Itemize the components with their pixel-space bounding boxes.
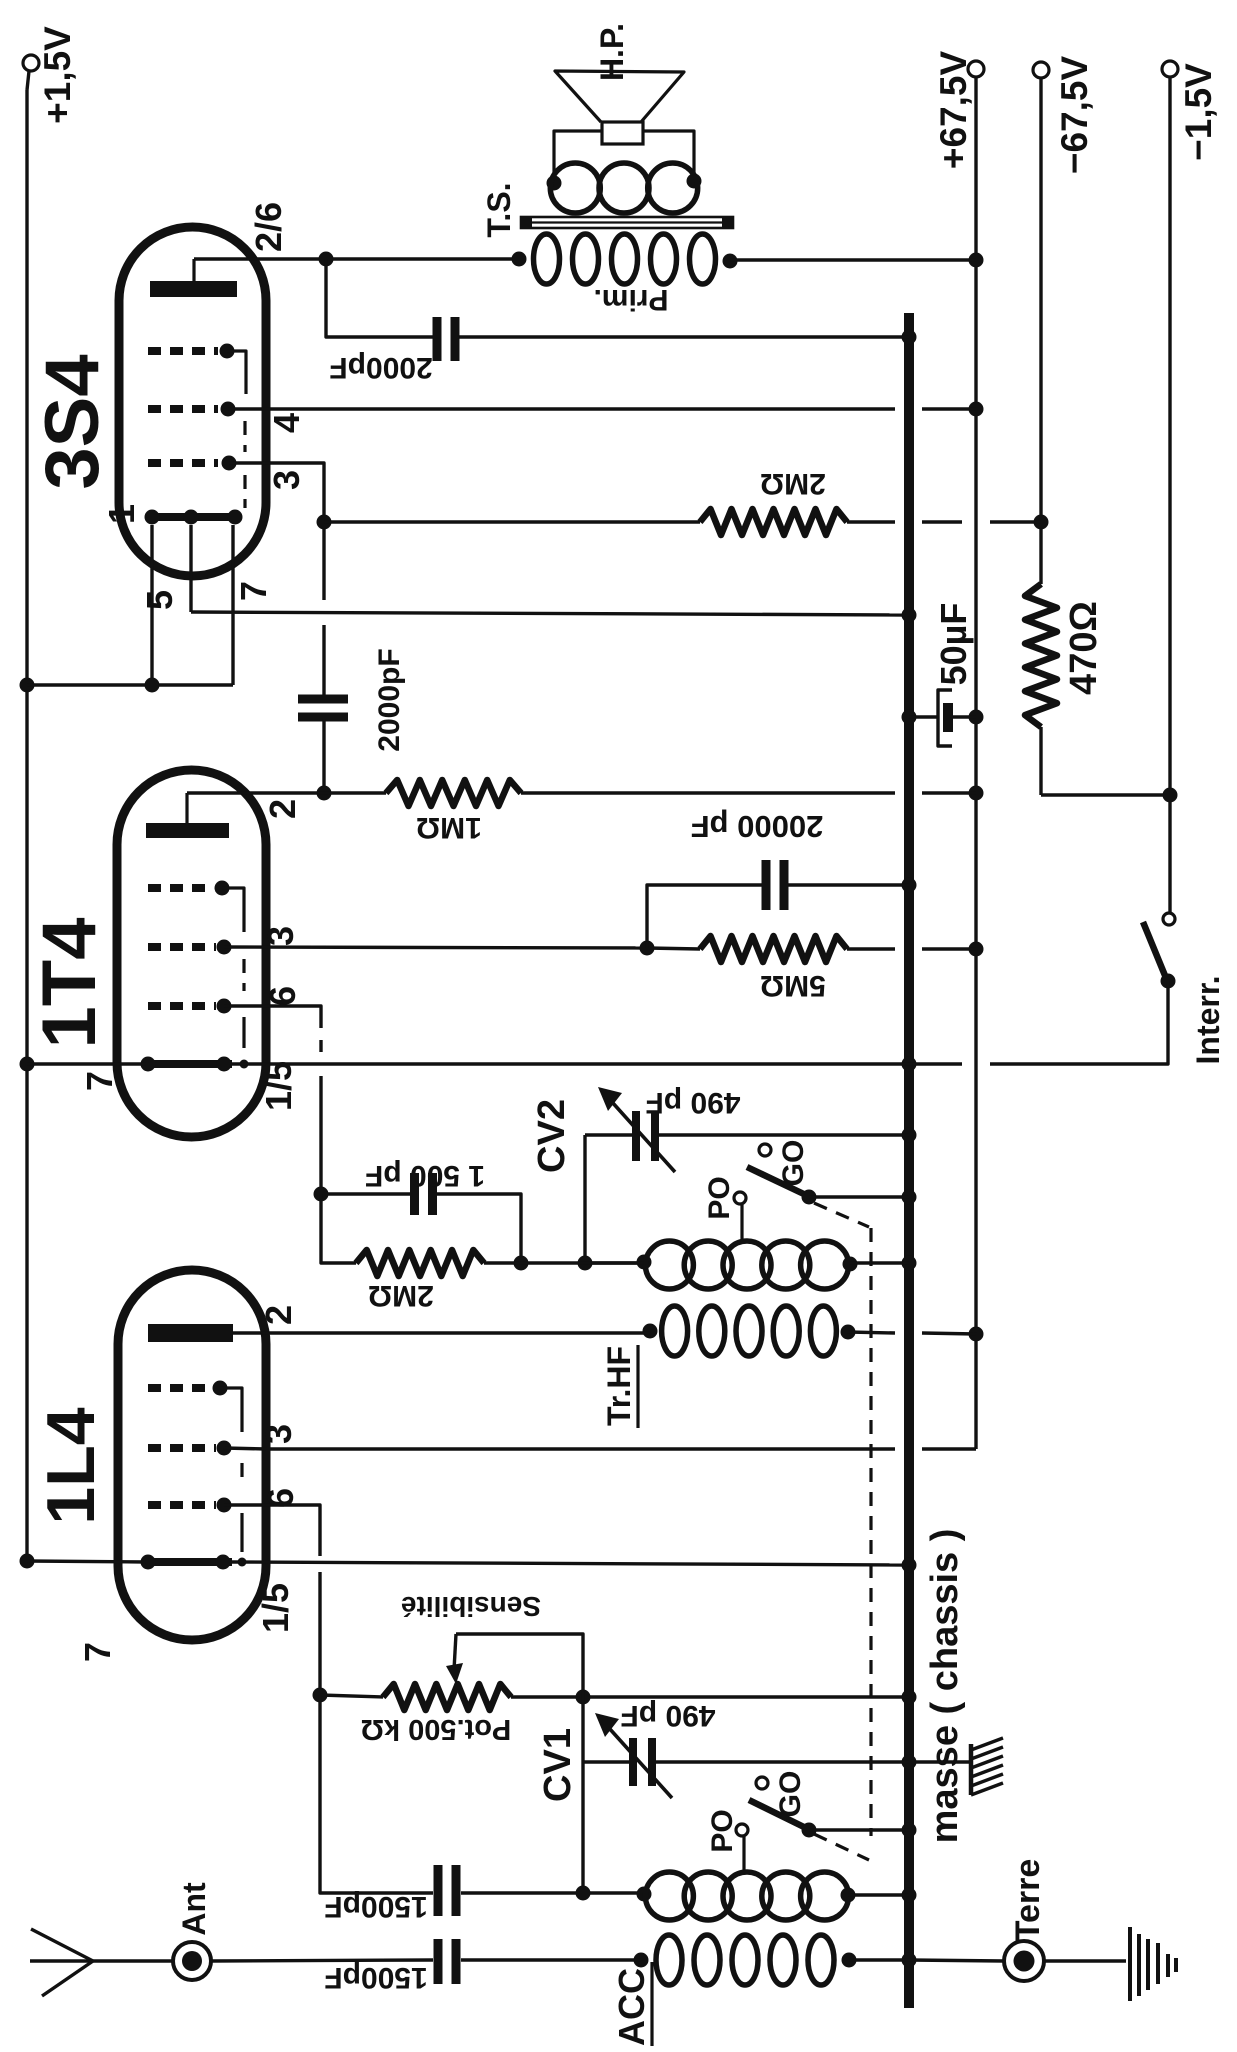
junction dot -67,5V / 2MOhm xyxy=(1034,515,1049,530)
svg-text:1 500 pF: 1 500 pF xyxy=(365,1159,485,1192)
label 5MOhm xyxy=(760,969,826,1002)
svg-text:6: 6 xyxy=(260,1488,301,1508)
terminal Ant xyxy=(173,1942,211,1980)
transformer Tr.HF primary coil xyxy=(643,1306,977,1356)
label Interr. xyxy=(1190,976,1226,1065)
svg-text:−1,5V: −1,5V xyxy=(1178,63,1219,161)
svg-text:1: 1 xyxy=(101,504,142,524)
label 2000pF bypass xyxy=(329,351,432,384)
tube 3S4 envelope xyxy=(119,227,266,576)
label 2MOhm (1T4 grid) xyxy=(368,1279,434,1312)
junction dot +1,5V rail / 1T4 filament xyxy=(20,1057,35,1072)
interrupter switch Interr. xyxy=(1143,913,1176,989)
svg-text:Tr.HF: Tr.HF xyxy=(601,1346,637,1426)
bus junction dot CV1 xyxy=(902,1755,917,1770)
svg-text:1500pF: 1500pF xyxy=(324,1890,427,1923)
1T4 grid 3 (dashed) pin 6 xyxy=(148,999,232,1014)
wire -67,5V rail xyxy=(1041,78,1170,795)
label 3 (1L4) xyxy=(258,1424,299,1444)
wiper bracket wire xyxy=(456,1634,583,1697)
label GO (Tr.HF) xyxy=(777,1140,810,1187)
svg-text:3: 3 xyxy=(258,1424,299,1444)
dashed gang linkage xyxy=(814,1203,871,1860)
terminal +1,5V xyxy=(23,26,78,124)
svg-text:Terre: Terre xyxy=(1009,1859,1047,1942)
1T4 filament wire to bus xyxy=(27,1062,962,1065)
3S4 suppressor link dashes xyxy=(243,475,246,508)
tube 1T4 envelope xyxy=(117,770,266,1137)
1T4 filament bar xyxy=(141,1057,249,1072)
svg-text:+67,5V: +67,5V xyxy=(933,51,974,170)
antenna symbol xyxy=(30,1929,173,1996)
capacitor 1500pF (antenna) xyxy=(211,1939,641,1984)
3S4 pin 7 wire xyxy=(231,525,234,685)
bus junction dot Tr.HF secondary xyxy=(902,1256,917,1271)
wire -1,5V rail xyxy=(1168,77,1171,913)
3S4 pins 1-7 wire xyxy=(27,683,233,686)
label 4 xyxy=(266,413,307,433)
label CV2 xyxy=(531,1099,573,1173)
bus junction dot 20000pF xyxy=(902,878,917,893)
wire bus to chassis symbol xyxy=(909,1760,971,1763)
1L4 grid 3 (dashed) pin 6 xyxy=(148,1498,232,1513)
junction dot 3S4 anode / 2000pF xyxy=(319,252,334,267)
label 2/6 xyxy=(248,202,289,252)
bus junction dot GO switch 1 xyxy=(902,1190,917,1205)
wire +67,5V rail xyxy=(266,77,976,1449)
svg-text:GO: GO xyxy=(777,1140,810,1187)
capacitor 20000pF xyxy=(647,860,909,948)
label 1 xyxy=(101,504,142,524)
svg-text:Prim.: Prim. xyxy=(593,283,668,316)
transformer Tr.HF secondary coil xyxy=(585,1241,909,1289)
svg-text:2000pF: 2000pF xyxy=(329,351,432,384)
label 1/5 (1L4) xyxy=(255,1583,296,1633)
3S4 grid 2 (dashed) pin 4 xyxy=(148,402,236,417)
3S4 pin 1 wire xyxy=(150,525,153,685)
svg-text:PO: PO xyxy=(706,1809,739,1852)
3S4 filament bar xyxy=(145,510,243,525)
3S4 screen wire pin 4 to +67,5V xyxy=(228,407,976,410)
junction dot +1,5V rail / 3S4 filament xyxy=(20,678,35,693)
wave switch PO/GO (Tr.HF) xyxy=(734,1144,817,1240)
capacitor 2000pF (coupling) xyxy=(298,695,348,794)
svg-text:470Ω: 470Ω xyxy=(1063,601,1105,695)
earth ground symbol xyxy=(1044,1927,1176,2001)
resistor 2MOhm (3S4 grid leak) xyxy=(324,509,1041,535)
capacitor 1500pF (1T4 grid) xyxy=(321,1173,521,1263)
label Sensibilite xyxy=(401,1591,541,1622)
1T4 grid link dashes xyxy=(242,959,245,991)
terminal +67,5V xyxy=(933,51,984,170)
junction dot +67,5V / T.S. primary xyxy=(969,253,984,268)
svg-text:masse ( chassis ): masse ( chassis ) xyxy=(924,1529,966,1844)
svg-text:CV1: CV1 xyxy=(537,1728,579,1802)
bus junction dot CV2 xyxy=(902,1128,917,1143)
variable capacitor CV2 490pF xyxy=(585,1087,909,1172)
svg-text:3: 3 xyxy=(266,470,307,490)
wire +1,5V filament rail xyxy=(25,90,28,1561)
svg-text:2: 2 xyxy=(258,1305,299,1325)
label 3 xyxy=(266,470,307,490)
label 1T4 xyxy=(27,918,112,1049)
svg-text:3S4: 3S4 xyxy=(30,354,115,489)
svg-text:3: 3 xyxy=(260,926,301,946)
junction dot pin1 xyxy=(145,678,160,693)
svg-text:490 pF: 490 pF xyxy=(620,1699,715,1732)
svg-text:5MΩ: 5MΩ xyxy=(760,969,826,1002)
bus junction dot 3S4 pin5/7 xyxy=(902,608,917,623)
label H.P. xyxy=(594,23,630,81)
1T4 anode wire pin 2 xyxy=(187,791,326,794)
junction dot CV2 / grid node xyxy=(578,1256,593,1271)
1T4 grid wire pin 3 / 5MOhm xyxy=(224,947,647,948)
label 1/5 (1T4) xyxy=(258,1061,299,1111)
wire pot node down to CV1 xyxy=(581,1697,584,1893)
svg-text:2000pF: 2000pF xyxy=(373,648,406,751)
label 7 (1L4) xyxy=(77,1642,118,1662)
svg-text:6: 6 xyxy=(262,986,303,1006)
label PO (Tr.HF) xyxy=(703,1176,736,1219)
svg-text:1L4: 1L4 xyxy=(33,1407,109,1524)
label 6 (1L4) xyxy=(260,1488,301,1508)
label Prim. xyxy=(593,283,668,316)
label Pot.500 kOhm xyxy=(361,1713,512,1745)
3S4 anode plate xyxy=(150,259,237,297)
1L4 suppressor link xyxy=(240,1513,243,1552)
svg-text:1/5: 1/5 xyxy=(258,1061,299,1111)
junction dot +67,5V / 1MOhm xyxy=(969,786,984,801)
1T4 grid 1 (dashed) xyxy=(148,881,244,933)
label 490pF (CV1) xyxy=(620,1699,715,1732)
1L4 anode plate pin 2 xyxy=(148,1324,650,1342)
label 1500pF (antenna) xyxy=(324,1961,427,1994)
wave switch PO/GO (ACC) xyxy=(736,1777,817,1872)
speaker voice coil xyxy=(547,131,702,213)
label 2MOhm grid leak xyxy=(760,467,826,500)
label 2 (1L4) xyxy=(258,1305,299,1325)
1T4 anode plate xyxy=(146,793,229,838)
label 1500pF (grid coil) xyxy=(324,1890,427,1923)
bus junction dot antenna coil xyxy=(902,1953,917,1968)
wire Interr. to bus xyxy=(990,981,1168,1064)
resistor 5MOhm xyxy=(647,936,976,962)
1L4 grid link dashes xyxy=(240,1463,243,1478)
label 1MOhm xyxy=(416,811,482,844)
label 20000pF xyxy=(691,809,824,844)
svg-text:1500pF: 1500pF xyxy=(324,1961,427,1994)
label 5 xyxy=(139,590,180,610)
svg-text:1T4: 1T4 xyxy=(27,918,112,1049)
svg-text:50µF: 50µF xyxy=(933,603,974,686)
label GO (ACC) xyxy=(774,1771,807,1818)
label 50uF xyxy=(933,603,974,686)
3S4 pin 5 wire xyxy=(191,525,909,615)
3S4 anode wire pin 2/6 xyxy=(194,257,519,260)
1T4 suppressor link xyxy=(242,1017,245,1048)
svg-text:GO: GO xyxy=(774,1771,807,1818)
pot wiper arrow xyxy=(446,1634,463,1684)
1L4 screen wire pin 3 xyxy=(224,1448,266,1449)
svg-text:PO: PO xyxy=(703,1176,736,1219)
svg-text:CV2: CV2 xyxy=(531,1099,573,1173)
svg-text:5: 5 xyxy=(139,590,180,610)
svg-text:Sensibilité: Sensibilité xyxy=(401,1591,541,1622)
junction dot +67,5V / 3S4 screen xyxy=(969,402,984,417)
svg-text:7: 7 xyxy=(233,581,274,601)
bus junction dot GO switch 2 xyxy=(902,1823,917,1838)
junction dot +1,5V rail / 1L4 filament xyxy=(20,1554,35,1569)
svg-text:490 pF: 490 pF xyxy=(645,1086,740,1119)
svg-text:2/6: 2/6 xyxy=(248,202,289,252)
svg-text:4: 4 xyxy=(266,413,307,433)
svg-text:Interr.: Interr. xyxy=(1190,976,1226,1065)
1T4 pin 6 wire xyxy=(224,1006,321,1194)
tube 1L4 envelope xyxy=(118,1270,266,1640)
wire GO switch 1 to bus xyxy=(809,1195,909,1198)
wire CV2 to grid node xyxy=(583,1135,586,1263)
transformer T.S. core xyxy=(521,216,733,229)
label 7 xyxy=(233,581,274,601)
junction dot +67,5V / 5MOhm xyxy=(969,942,984,957)
svg-text:2MΩ: 2MΩ xyxy=(368,1279,434,1312)
svg-text:7: 7 xyxy=(79,1071,120,1091)
svg-text:H.P.: H.P. xyxy=(594,23,630,81)
bus junction dot potentiometer xyxy=(902,1690,917,1705)
label Tr.HF xyxy=(601,1345,638,1428)
junction dot coupling cap / 1T4 anode xyxy=(317,786,332,801)
potentiometer Pot.500kOhm xyxy=(313,1684,910,1710)
1T4 grid 2 (dashed) pin 3 xyxy=(148,940,232,955)
svg-text:1/5: 1/5 xyxy=(255,1583,296,1633)
svg-text:Ant: Ant xyxy=(176,1882,212,1936)
1L4 filament bar xyxy=(141,1555,247,1570)
label 2 (1T4) xyxy=(262,799,303,819)
1L4 filament wire to bus xyxy=(27,1561,909,1565)
label masse (chassis) xyxy=(924,1529,966,1844)
label 2000pF coupling xyxy=(373,648,406,751)
resistor 1MOhm xyxy=(326,780,976,806)
bus junction dot filament line xyxy=(902,1057,917,1072)
transformer ACC primary coil xyxy=(634,1935,910,1985)
svg-text:Pot.500 kΩ: Pot.500 kΩ xyxy=(361,1713,512,1745)
junction dot +67,5V / Tr.HF primary xyxy=(969,1327,984,1342)
transformer T.S. primary xyxy=(512,234,977,284)
variable capacitor CV1 490pF xyxy=(583,1713,909,1798)
wire GO switch 2 to bus xyxy=(809,1828,909,1831)
3S4 grid 1 (dashed) xyxy=(148,344,246,395)
capacitor 50uF electrolytic xyxy=(909,690,976,746)
svg-text:20000 pF: 20000 pF xyxy=(691,809,824,844)
svg-text:−67,5V: −67,5V xyxy=(1054,56,1095,175)
label 6 (1T4) xyxy=(262,986,303,1006)
terminal Terre xyxy=(909,1941,1044,1981)
resistor 2MOhm (1T4 grid) xyxy=(321,1194,644,1276)
svg-text:7: 7 xyxy=(77,1642,118,1662)
loudspeaker H.P. xyxy=(555,71,684,144)
label Terre xyxy=(1009,1859,1047,1942)
resistor 470 Ohm xyxy=(1025,584,1057,727)
1L4 grid 2 (dashed) pin 3 xyxy=(148,1441,232,1456)
svg-text:1MΩ: 1MΩ xyxy=(416,811,482,844)
3S4 grid 3 (dashed) pin 3 xyxy=(148,456,237,471)
svg-text:ACC.: ACC. xyxy=(611,1958,652,2046)
label 1500pF (1T4 grid) xyxy=(365,1159,485,1192)
bus junction dot 1L4 filament xyxy=(902,1558,917,1573)
junction dot +67,5V / 50uF xyxy=(969,710,984,725)
chassis ground symbol xyxy=(971,1738,1003,1795)
junction dot -1,5V / 470 Ohm xyxy=(1163,788,1178,803)
label CV1 xyxy=(537,1728,579,1802)
label ACC. xyxy=(611,1958,652,2046)
junction dot 1500pF right xyxy=(514,1256,529,1271)
junction dot 1500pF left xyxy=(314,1187,329,1202)
junction dot 1500pF / CV1 node xyxy=(576,1886,591,1901)
svg-text:2: 2 xyxy=(262,799,303,819)
terminal -67,5V xyxy=(1033,56,1095,175)
terminal -1,5V xyxy=(1162,61,1219,161)
label 7 (1T4) xyxy=(79,1071,120,1091)
label 1L4 xyxy=(33,1407,109,1524)
label 3S4 xyxy=(30,354,115,489)
svg-text:+1,5V: +1,5V xyxy=(37,26,78,124)
label PO (ACC) xyxy=(706,1809,739,1852)
label T.S. xyxy=(481,182,517,237)
label Ant xyxy=(176,1882,212,1936)
svg-text:T.S.: T.S. xyxy=(481,182,517,237)
label 490pF (CV2) xyxy=(645,1086,740,1119)
capacitor 2000pF (anode bypass) xyxy=(326,259,909,361)
3S4 grid wire pin 3 xyxy=(229,463,324,698)
junction dot 5MOhm / 20000pF xyxy=(640,941,655,956)
3S4 grid link dashes xyxy=(243,421,246,452)
transformer ACC secondary coil xyxy=(637,1872,910,1920)
1L4 grid 1 (dashed) xyxy=(148,1381,242,1433)
bus junction dot 2000pF top xyxy=(902,330,917,345)
bus junction dot ACC secondary xyxy=(902,1888,917,1903)
1L4 pin 6 wire xyxy=(224,1505,320,1695)
junction dot pin3 / 2MOhm xyxy=(317,515,332,530)
svg-text:2MΩ: 2MΩ xyxy=(760,467,826,500)
chassis ground bus xyxy=(904,313,914,2008)
capacitor 1500pF (grid coil) xyxy=(320,1695,644,1916)
label 3 (1T4) xyxy=(260,926,301,946)
bus junction dot 50uF xyxy=(902,710,917,725)
label 470 Ohm xyxy=(1063,601,1105,695)
